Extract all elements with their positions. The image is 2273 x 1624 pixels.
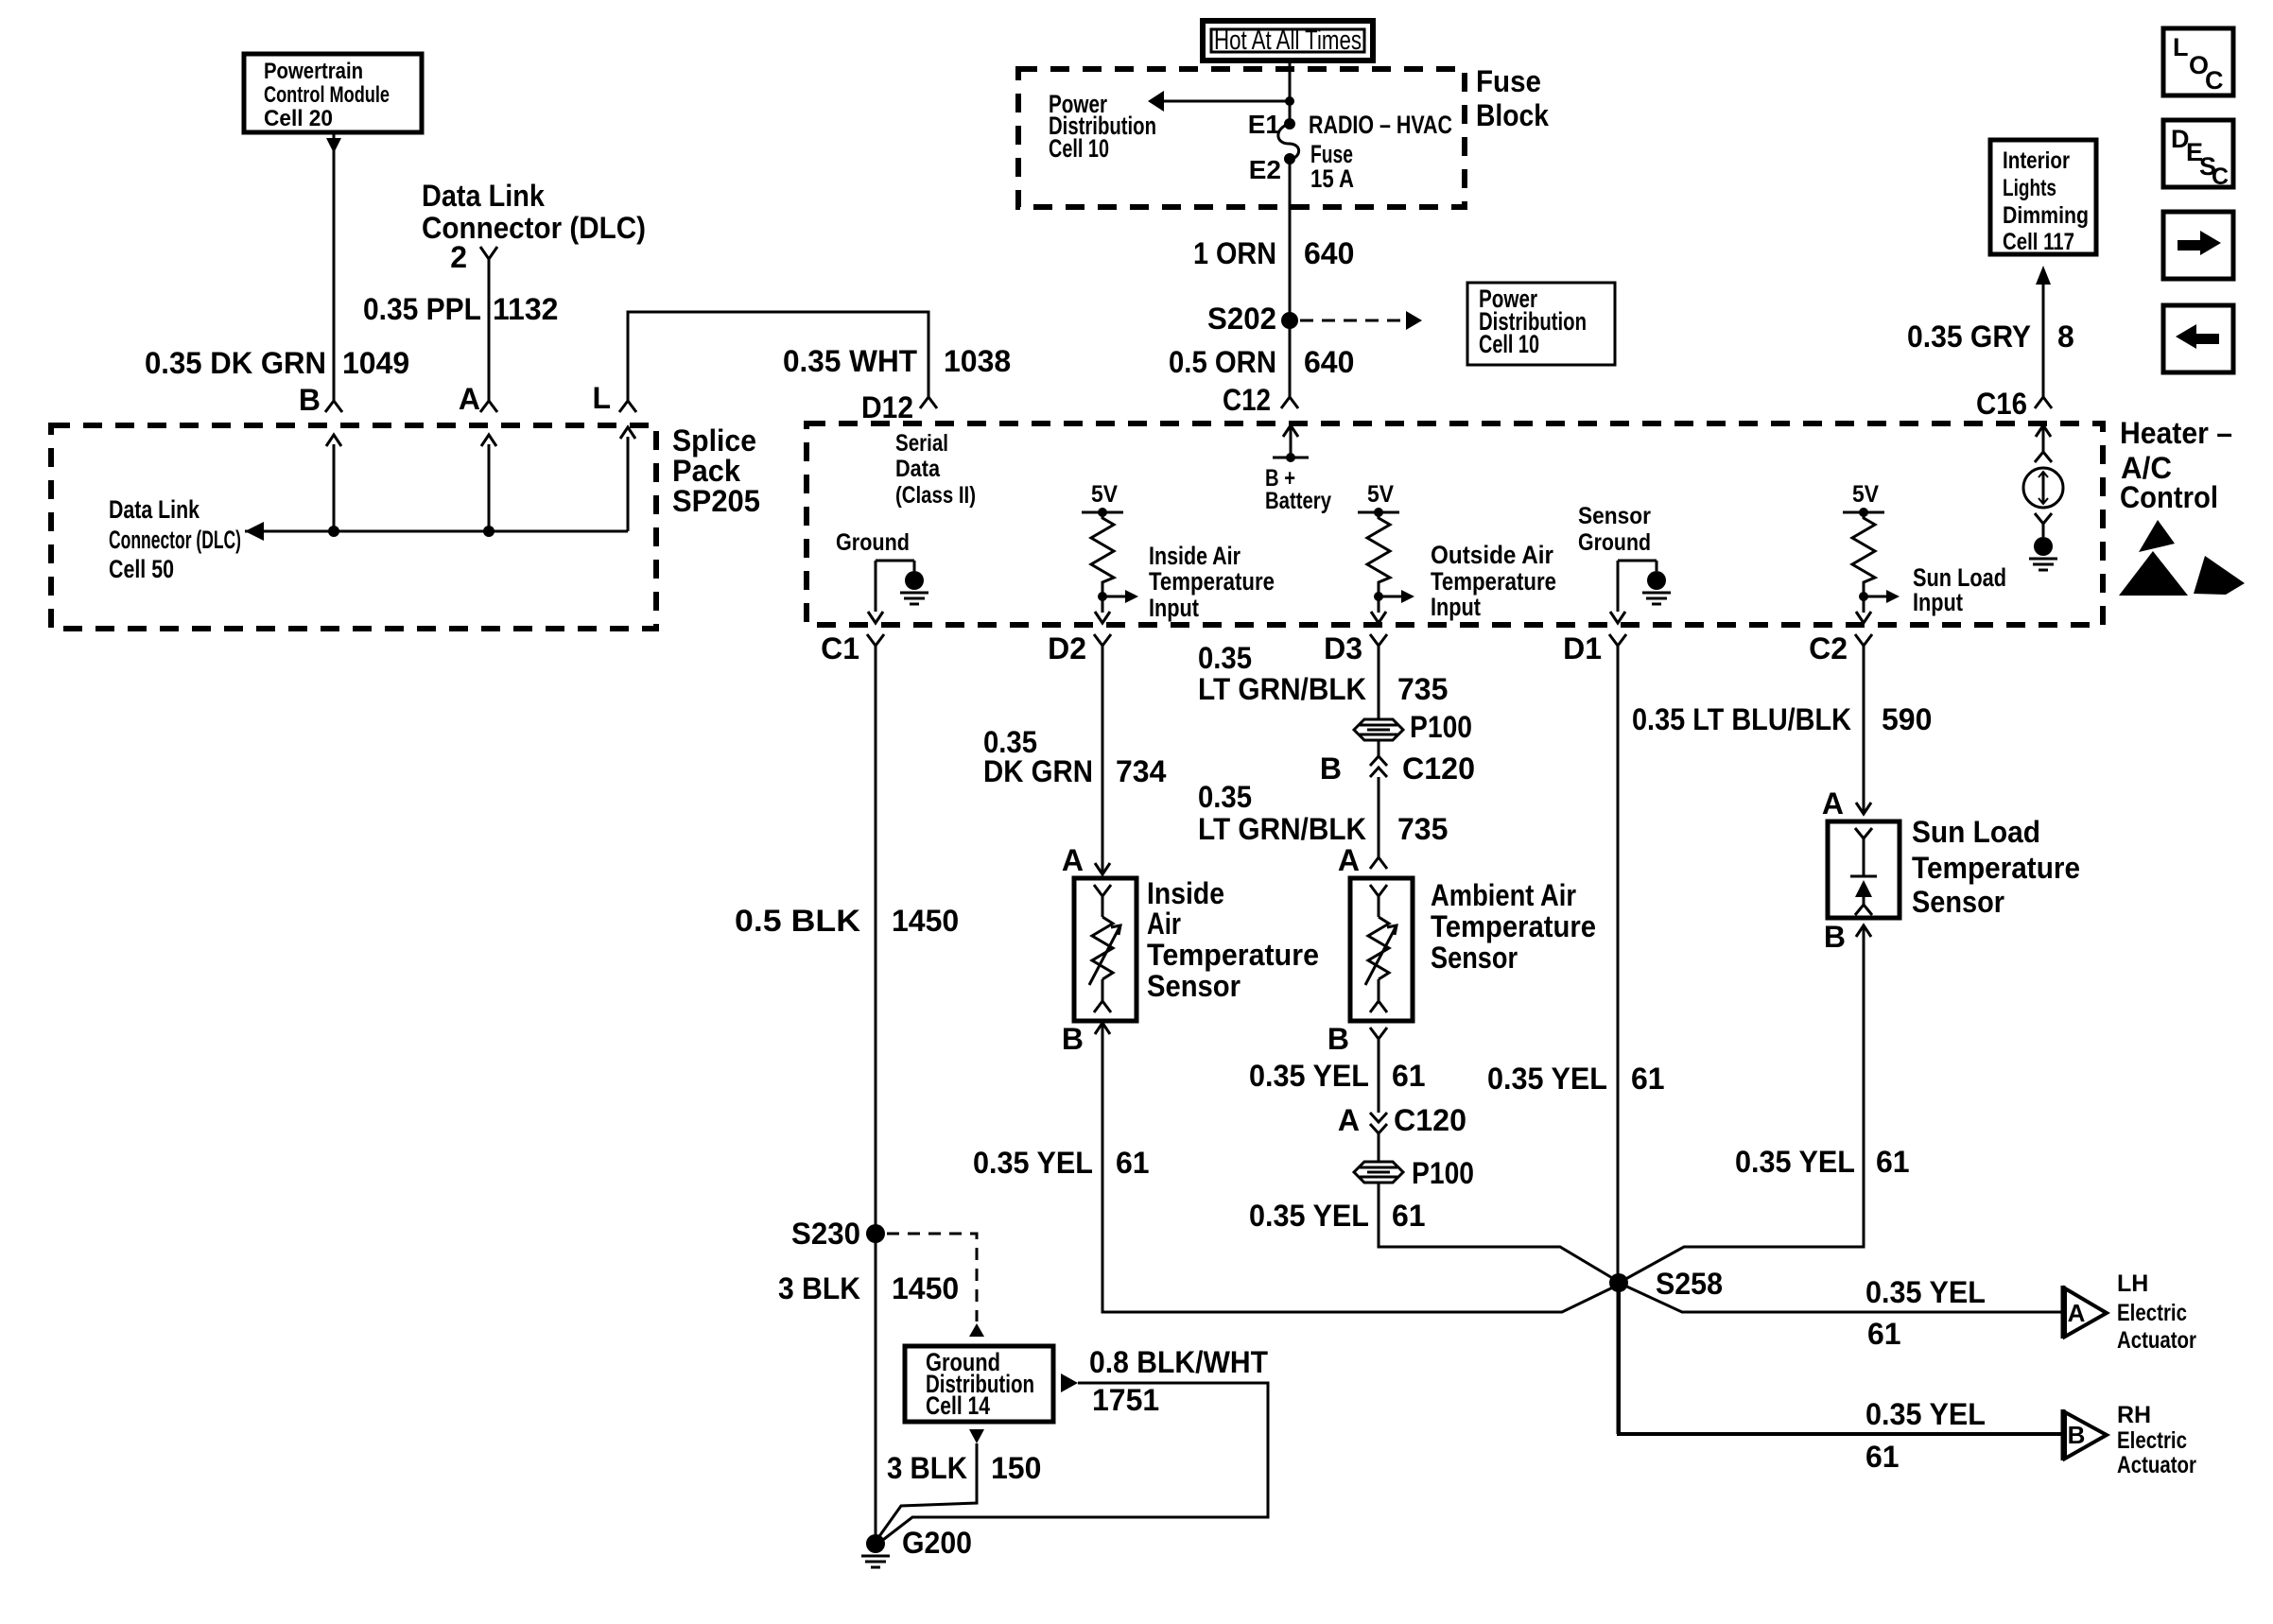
svg-text:Hot At All Times: Hot At All Times xyxy=(1214,26,1362,56)
svg-text:61: 61 xyxy=(1867,1317,1901,1351)
svg-text:LT GRN/BLK: LT GRN/BLK xyxy=(1198,672,1366,706)
svg-text:Lights: Lights xyxy=(2003,175,2056,201)
svg-text:1450: 1450 xyxy=(892,904,959,938)
svg-text:0.35 YEL: 0.35 YEL xyxy=(1249,1199,1369,1233)
svg-text:Temperature: Temperature xyxy=(1912,851,2080,885)
svg-text:1 ORN: 1 ORN xyxy=(1193,236,1276,270)
svg-text:0.35 GRY: 0.35 GRY xyxy=(1907,320,2031,354)
svg-text:B: B xyxy=(1062,1022,1084,1056)
svg-text:L: L xyxy=(592,381,611,415)
svg-text:SP205: SP205 xyxy=(672,484,760,518)
svg-text:Cell 117: Cell 117 xyxy=(2003,229,2074,255)
svg-text:DK GRN: DK GRN xyxy=(983,754,1093,788)
svg-text:0.35 PPL: 0.35 PPL xyxy=(363,292,481,326)
svg-text:Control: Control xyxy=(2120,480,2218,514)
svg-text:735: 735 xyxy=(1397,812,1448,846)
svg-text:61: 61 xyxy=(1116,1146,1150,1180)
svg-text:Pack: Pack xyxy=(672,454,740,488)
svg-text:Temperature: Temperature xyxy=(1431,909,1596,943)
svg-text:Splice: Splice xyxy=(672,423,756,458)
svg-text:Inside: Inside xyxy=(1147,876,1224,910)
svg-text:Sensor: Sensor xyxy=(1431,941,1518,975)
svg-text:D3: D3 xyxy=(1324,631,1362,665)
svg-text:Inside Air: Inside Air xyxy=(1149,542,1241,570)
svg-text:C16: C16 xyxy=(1976,387,2027,421)
svg-text:15 A: 15 A xyxy=(1310,164,1354,193)
svg-text:735: 735 xyxy=(1397,672,1448,706)
svg-text:Temperature: Temperature xyxy=(1147,938,1319,972)
svg-text:150: 150 xyxy=(991,1451,1041,1485)
svg-text:Heater –: Heater – xyxy=(2120,416,2232,450)
svg-text:2: 2 xyxy=(450,240,467,274)
svg-text:Ground: Ground xyxy=(1578,529,1651,556)
svg-text:Temperature: Temperature xyxy=(1431,567,1556,596)
svg-text:B: B xyxy=(1320,752,1342,786)
svg-text:0.35: 0.35 xyxy=(1198,780,1252,814)
svg-text:D1: D1 xyxy=(1563,631,1602,665)
svg-text:1751: 1751 xyxy=(1092,1383,1159,1417)
svg-text:0.35 DK GRN: 0.35 DK GRN xyxy=(145,346,326,380)
svg-text:A: A xyxy=(459,382,480,416)
svg-text:Powertrain: Powertrain xyxy=(264,59,363,84)
svg-text:640: 640 xyxy=(1304,345,1354,379)
svg-text:C120: C120 xyxy=(1402,752,1475,786)
svg-text:Serial: Serial xyxy=(895,430,948,457)
svg-text:C120: C120 xyxy=(1394,1103,1466,1137)
svg-text:L: L xyxy=(2173,33,2189,61)
svg-text:1038: 1038 xyxy=(944,344,1011,378)
svg-text:1132: 1132 xyxy=(493,292,558,326)
svg-text:C12: C12 xyxy=(1223,383,1271,417)
svg-text:D12: D12 xyxy=(861,390,913,424)
svg-text:LH: LH xyxy=(2117,1270,2148,1297)
svg-text:0.35 YEL: 0.35 YEL xyxy=(1735,1145,1855,1179)
svg-text:0.8 BLK/WHT: 0.8 BLK/WHT xyxy=(1089,1345,1268,1379)
svg-text:Sensor: Sensor xyxy=(1147,969,1241,1003)
svg-text:Ambient Air: Ambient Air xyxy=(1431,878,1576,912)
svg-text:0.35 LT BLU/BLK: 0.35 LT BLU/BLK xyxy=(1632,702,1851,736)
svg-text:Dimming: Dimming xyxy=(2003,202,2089,229)
svg-text:Air: Air xyxy=(1147,907,1181,941)
svg-text:A: A xyxy=(1062,843,1084,877)
svg-text:S258: S258 xyxy=(1656,1267,1723,1301)
svg-text:A: A xyxy=(1822,786,1844,821)
svg-text:Fuse: Fuse xyxy=(1476,64,1541,98)
svg-text:Control Module: Control Module xyxy=(264,82,390,108)
svg-text:734: 734 xyxy=(1116,754,1167,788)
svg-text:D2: D2 xyxy=(1048,631,1086,665)
svg-text:Electric: Electric xyxy=(2117,1427,2187,1454)
svg-text:Actuator: Actuator xyxy=(2117,1452,2196,1478)
svg-text:5V: 5V xyxy=(1367,481,1394,508)
svg-text:5V: 5V xyxy=(1852,481,1879,508)
svg-text:61: 61 xyxy=(1876,1145,1910,1179)
svg-text:B: B xyxy=(2068,1421,2086,1449)
svg-text:61: 61 xyxy=(1392,1199,1426,1233)
svg-text:Outside Air: Outside Air xyxy=(1431,541,1553,569)
svg-text:E1: E1 xyxy=(1248,110,1280,139)
svg-text:Data: Data xyxy=(895,456,941,482)
svg-text:Cell 10: Cell 10 xyxy=(1479,330,1539,358)
svg-text:0.35 YEL: 0.35 YEL xyxy=(1487,1062,1607,1096)
svg-text:Electric: Electric xyxy=(2117,1300,2187,1326)
svg-text:Cell 10: Cell 10 xyxy=(1049,134,1109,163)
svg-text:Data Link: Data Link xyxy=(109,495,200,524)
svg-text:S202: S202 xyxy=(1207,302,1276,336)
svg-text:61: 61 xyxy=(1631,1062,1665,1096)
svg-text:Data Link: Data Link xyxy=(422,179,545,213)
svg-text:B: B xyxy=(1824,920,1846,954)
svg-text:8: 8 xyxy=(2057,320,2074,354)
svg-text:G200: G200 xyxy=(902,1526,972,1560)
svg-text:E2: E2 xyxy=(1249,155,1281,184)
svg-text:P100: P100 xyxy=(1410,710,1472,744)
svg-text:3 BLK: 3 BLK xyxy=(778,1271,860,1305)
svg-text:Actuator: Actuator xyxy=(2117,1327,2196,1354)
svg-text:Ground: Ground xyxy=(836,529,910,556)
svg-text:5V: 5V xyxy=(1091,481,1118,508)
svg-text:Input: Input xyxy=(1431,593,1481,621)
svg-text:Sensor: Sensor xyxy=(1912,885,2004,919)
svg-text:Sensor: Sensor xyxy=(1578,503,1651,529)
svg-text:640: 640 xyxy=(1304,236,1354,270)
svg-text:Block: Block xyxy=(1476,98,1549,132)
svg-text:P100: P100 xyxy=(1412,1156,1474,1190)
svg-text:1450: 1450 xyxy=(892,1271,959,1305)
svg-text:Cell 50: Cell 50 xyxy=(109,555,174,583)
svg-text:0.35 YEL: 0.35 YEL xyxy=(1865,1397,1986,1431)
svg-text:0.5 BLK: 0.5 BLK xyxy=(735,904,860,938)
svg-text:61: 61 xyxy=(1865,1440,1900,1474)
svg-text:LT GRN/BLK: LT GRN/BLK xyxy=(1198,812,1366,846)
svg-text:B: B xyxy=(299,383,321,417)
svg-text:(Class II): (Class II) xyxy=(895,482,976,509)
svg-text:C2: C2 xyxy=(1809,631,1848,665)
svg-text:0.35 YEL: 0.35 YEL xyxy=(973,1146,1093,1180)
svg-text:A: A xyxy=(1338,1103,1360,1137)
svg-text:Input: Input xyxy=(1913,588,1963,616)
svg-text:0.35 WHT: 0.35 WHT xyxy=(783,344,917,378)
svg-text:61: 61 xyxy=(1392,1059,1426,1093)
svg-text:B: B xyxy=(1327,1022,1349,1056)
svg-text:1049: 1049 xyxy=(342,346,409,380)
svg-text:3 BLK: 3 BLK xyxy=(887,1451,967,1485)
svg-text:Battery: Battery xyxy=(1265,488,1331,514)
svg-text:Temperature: Temperature xyxy=(1149,567,1275,596)
svg-text:Interior: Interior xyxy=(2003,147,2070,174)
svg-text:590: 590 xyxy=(1882,702,1932,736)
svg-text:S230: S230 xyxy=(791,1217,860,1251)
svg-text:Connector (DLC): Connector (DLC) xyxy=(109,526,241,554)
svg-text:A: A xyxy=(1338,843,1360,877)
svg-text:0.35: 0.35 xyxy=(1198,641,1252,675)
svg-text:0.35 YEL: 0.35 YEL xyxy=(1865,1275,1986,1309)
svg-text:C: C xyxy=(2212,164,2229,190)
svg-text:Cell 14: Cell 14 xyxy=(926,1391,990,1420)
svg-text:Cell 20: Cell 20 xyxy=(264,106,333,131)
svg-text:C1: C1 xyxy=(821,631,859,665)
svg-text:RH: RH xyxy=(2117,1402,2151,1428)
svg-text:Sun Load: Sun Load xyxy=(1912,815,2040,849)
svg-text:Input: Input xyxy=(1149,594,1199,622)
svg-text:0.35 YEL: 0.35 YEL xyxy=(1249,1059,1369,1093)
svg-text:0.5 ORN: 0.5 ORN xyxy=(1169,345,1276,379)
svg-text:A: A xyxy=(2068,1299,2086,1327)
svg-text:C: C xyxy=(2205,66,2224,95)
svg-text:RADIO – HVAC: RADIO – HVAC xyxy=(1309,111,1452,139)
